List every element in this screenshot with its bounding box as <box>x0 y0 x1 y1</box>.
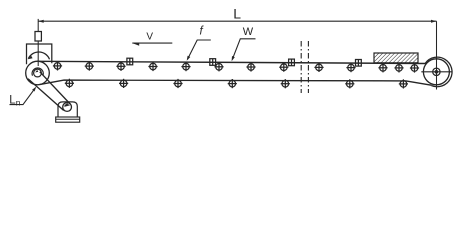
tail pulley P2 <box>423 59 449 85</box>
belt wrap arc around tail pulley <box>425 57 452 87</box>
top idler 10 <box>346 63 355 72</box>
extension centerline of drive station <box>37 19 39 32</box>
svg-text:L: L <box>233 6 241 22</box>
drive pulley rotation arrow arc <box>28 52 49 59</box>
top idler 6 <box>214 62 223 71</box>
top idler 8 <box>279 63 288 72</box>
label W leader <box>232 39 255 59</box>
dimension arrow left <box>38 20 44 23</box>
tail pulley center dot <box>435 71 437 73</box>
bearing block 3 <box>289 59 295 66</box>
drive belt lower line <box>28 79 64 111</box>
motor rotation arrow <box>65 105 70 107</box>
motor housing dome <box>58 102 77 117</box>
top idler 5 <box>181 62 190 71</box>
belt top run <box>38 61 426 63</box>
return idler 4 <box>228 79 237 88</box>
top impact idler 13 <box>410 63 419 72</box>
top idler 4 <box>148 62 157 71</box>
break line right <box>307 41 309 93</box>
return idler 5 <box>281 79 290 88</box>
svg-text:Ln: Ln <box>9 94 20 107</box>
label f leader <box>188 40 211 59</box>
svg-text:W: W <box>243 26 254 38</box>
return idler 6 <box>345 79 354 88</box>
label V arrow <box>132 42 172 44</box>
label Ln leader <box>10 88 36 105</box>
bearing block 4 <box>356 60 362 67</box>
belt bottom run <box>40 80 432 85</box>
return idler 3 <box>173 79 182 88</box>
return idler 7 <box>399 79 408 88</box>
tail pulley centerline horizontal <box>421 71 451 73</box>
top impact idler 12 <box>394 63 403 72</box>
top idler 1 <box>53 61 62 70</box>
top idler 7 <box>246 62 255 71</box>
motor base inner line <box>56 118 80 120</box>
motor base plate <box>56 117 80 122</box>
bearing block 1 <box>127 58 133 65</box>
tail pulley centerline vertical <box>436 57 438 90</box>
dimension line L <box>38 20 436 22</box>
top idler 2 <box>85 62 94 71</box>
drive pulley P1 <box>26 61 50 85</box>
tail pulley hub <box>433 68 440 75</box>
drive belt wrap arc around hub <box>32 68 43 76</box>
dimension arrow right <box>431 20 437 23</box>
drive pulley hub <box>34 69 42 77</box>
take-up weight box <box>35 32 41 42</box>
svg-text:f: f <box>200 25 205 37</box>
load pile hatch <box>374 53 418 63</box>
top idler 3 <box>116 62 125 71</box>
drive pulley hub rotation arrow <box>35 70 38 73</box>
motor pulley <box>63 103 72 112</box>
top impact idler 11 <box>378 63 387 72</box>
bearing block 2 <box>210 59 216 66</box>
svg-text:V: V <box>146 31 153 42</box>
return idler 2 <box>119 79 128 88</box>
return idler 1 <box>65 79 74 88</box>
extension centerline of tail pulley <box>436 21 438 57</box>
drive station frame <box>27 44 52 64</box>
break line left <box>300 41 302 93</box>
drive belt upper line <box>40 72 71 104</box>
top idler 9 <box>314 63 323 72</box>
